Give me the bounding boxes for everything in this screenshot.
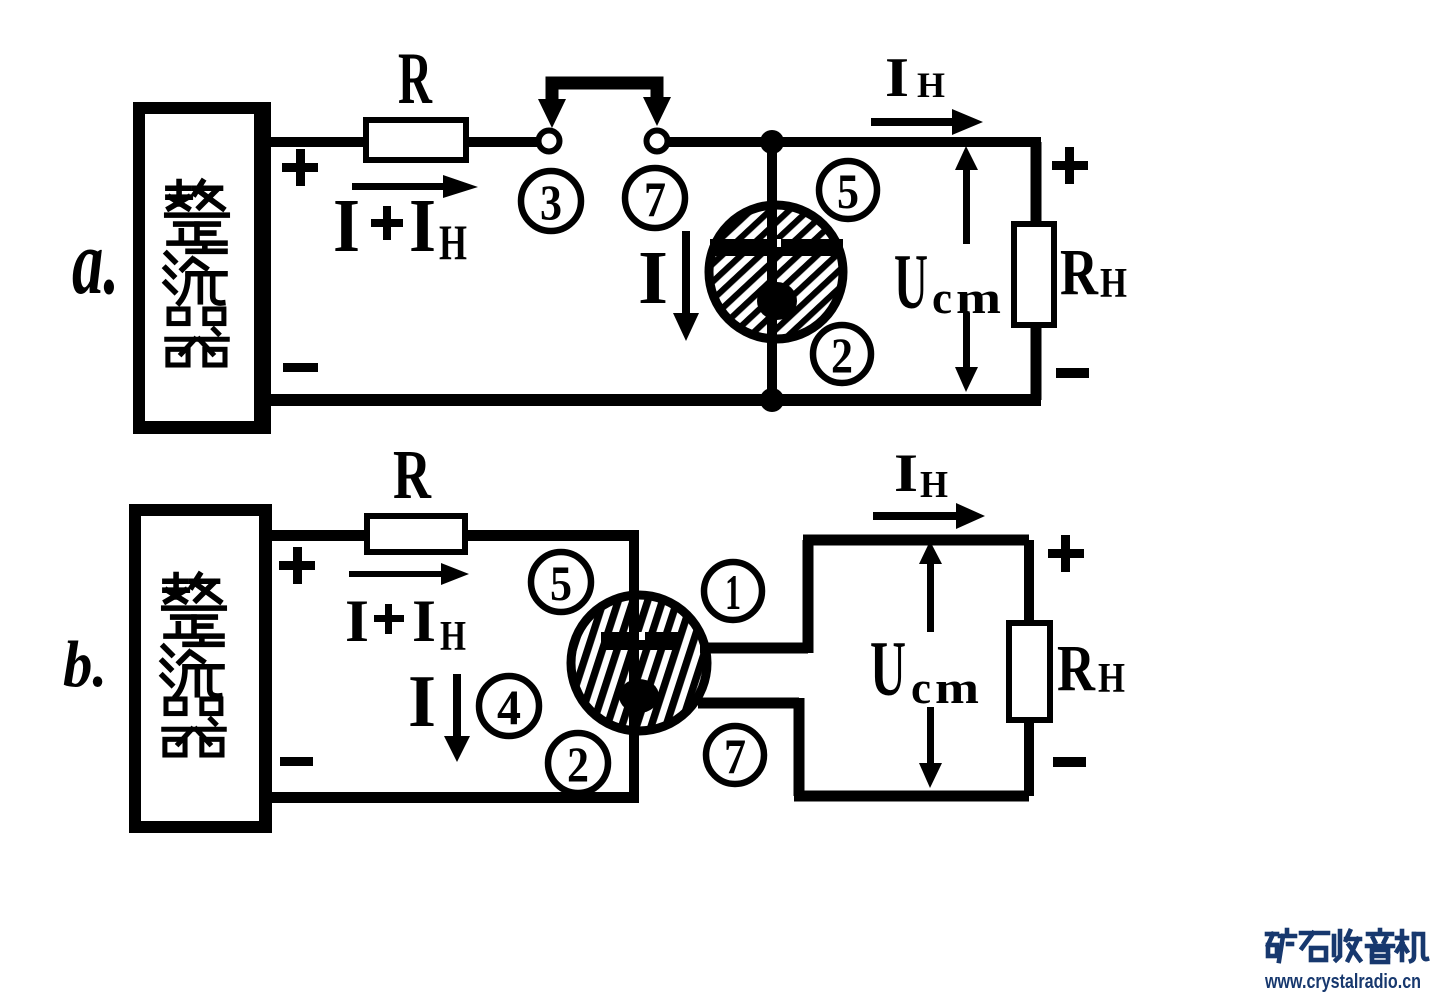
load resistor RH (b) [1009,623,1050,720]
svg-text:3: 3 [540,174,562,230]
minus sign (a left) [283,363,318,372]
pin label 5 (a) [819,161,877,219]
plus sign (a left) [282,149,318,186]
rectifier box b [135,510,266,827]
right rail (a) [1031,142,1042,400]
watermark char kuang [1267,930,1295,961]
wire box to resistor (b) [267,530,367,541]
svg-text:m: m [956,272,1001,323]
watermark char shou [1334,931,1360,960]
right rail (b) [1024,540,1034,796]
svg-text:m: m [935,662,979,713]
current arrow I down (a) [673,231,699,341]
bottom rail left (b) [267,792,639,803]
svg-text:U: U [870,625,906,712]
wire box to resistor (a) [260,137,366,147]
voltage arrow Ucm down (b) [919,707,942,788]
svg-text:H: H [1100,261,1127,307]
svg-text:I: I [885,47,909,109]
svg-text:H: H [440,614,466,660]
wire hall element to top rail (b) [700,540,1029,653]
rectifier text 整 (b) [164,575,224,637]
current arrow I+IH (a) [352,175,478,198]
voltage arrow Ucm down (a) [955,313,978,392]
watermark char ji [1397,931,1427,961]
pin label 3 (a) [521,171,581,231]
rectifier text 器 (b) [164,699,224,755]
svg-text:U: U [894,238,928,325]
plus sign (b left) [279,547,315,584]
svg-text:5: 5 [550,555,572,611]
wire hall element to bottom rail (b) [698,698,1029,796]
svg-text:I: I [345,588,369,654]
terminal socket 3 (a) [539,131,560,152]
svg-text:4: 4 [497,679,521,735]
svg-text:R: R [1057,632,1096,705]
svg-text:7: 7 [724,728,746,784]
label IH (b) [894,443,948,506]
svg-text:I: I [638,236,668,320]
center contact blob (b) [619,679,659,713]
svg-text:I: I [409,184,436,268]
voltage arrow Ucm up (a) [955,146,978,244]
svg-text:c: c [932,272,952,323]
jumper arrowhead left (a) [538,99,566,128]
svg-text:c: c [911,662,931,713]
wire resistor to hall element (b) [464,530,639,541]
current arrow I+IH (b) [349,563,469,585]
terminal socket 7 (a) [647,131,668,152]
wire terminal 7 to node (a) [668,137,1041,147]
minus sign (a right) [1056,368,1089,378]
svg-text:R: R [398,38,433,120]
svg-text:I: I [412,588,436,654]
pin label 4 (b) [479,676,539,736]
jumper plug bridge (a) [552,83,657,104]
hall element circle (b) [571,595,707,731]
svg-text:I: I [333,184,360,268]
rectifier text 流 (b) [163,638,222,696]
minus sign (b right) [1053,757,1086,767]
wire resistor to terminal 3 (a) [466,137,539,147]
electrode bar notch (b) [637,632,645,640]
svg-text:2: 2 [567,736,589,792]
svg-text:1: 1 [725,564,741,620]
label Ucm (a) [894,238,1001,325]
svg-text:7: 7 [644,171,666,227]
minus sign (b left) [280,757,313,766]
svg-text:R: R [393,437,432,514]
svg-text:I: I [894,443,918,503]
current arrow IH (b) [873,503,985,529]
electrode bar notch (a) [772,239,781,247]
svg-text:I: I [408,661,436,743]
current arrow IH (a) [871,109,983,135]
watermark char shi [1301,933,1328,960]
rectifier text 整 (a) [167,182,227,244]
voltage arrow Ucm up (b) [919,541,942,632]
label RH (a) [1060,236,1127,309]
svg-text:H: H [917,65,945,105]
load resistor RH (a) [1014,224,1054,325]
svg-text:2: 2 [831,327,853,383]
junction node bottom (a) [760,388,784,412]
rectifier box a [139,108,260,427]
jumper arrowhead right (a) [643,97,671,126]
svg-text:R: R [1060,236,1099,309]
label RH (b) [1057,632,1125,705]
svg-text:www.crystalradio.cn: www.crystalradio.cn [1264,971,1421,993]
resistor R (b) [367,516,465,552]
junction node top (a) [760,130,784,154]
pin label 2 (a) [813,325,871,383]
center contact blob (a) [757,282,797,320]
electrode bar (b) [601,632,679,650]
svg-text:5: 5 [837,163,859,219]
svg-text:H: H [439,214,467,270]
pin label 7 (b) [706,726,764,784]
vertical wire through hall element (b) [629,533,639,798]
rectifier text 器 (a) [167,309,227,365]
label I+IH (a) [333,184,467,270]
current arrow I down (b) [444,674,470,762]
watermark char yin [1367,930,1393,962]
electrode bar (a) [710,239,843,256]
bottom rail (a) [260,394,1041,406]
pin label 1 (b) [704,562,762,620]
svg-text:b.: b. [63,628,107,701]
label Ucm (b) [870,625,979,713]
svg-text:H: H [1098,656,1125,702]
plus sign (a right) [1052,147,1088,184]
resistor R (a) [366,120,466,160]
pin label 5 (b) [531,552,591,612]
svg-text:H: H [920,464,948,506]
plus sign (b right) [1048,535,1084,572]
pin label 7 (a) [625,168,685,228]
svg-text:a.: a. [72,211,119,313]
label IH (a) [885,47,945,109]
vertical wire through hall element (a) [767,142,777,400]
hall element circle (a) [709,205,843,339]
rectifier text 流 (a) [166,245,225,303]
label I+IH (b) [345,588,466,660]
pin label 2 (b) [548,733,608,793]
